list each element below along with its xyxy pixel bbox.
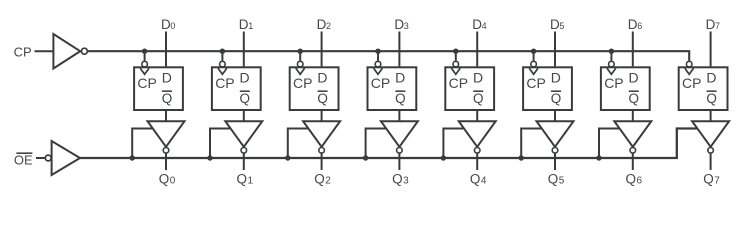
svg-text:CP: CP — [137, 75, 156, 91]
wire Q5 output — [554, 153, 556, 170]
tri-state buffer T5 — [537, 121, 574, 153]
wire clock rail (node CLK) — [88, 51, 689, 60]
node enable junction 4 — [441, 155, 446, 160]
label Q6 — [626, 171, 643, 186]
wire CP input to inverter U1 — [35, 50, 54, 52]
wire D3 input to FF3 — [398, 32, 400, 67]
flip-flop FF5 — [523, 67, 572, 110]
svg-text:CP: CP — [449, 75, 468, 91]
inverter U1 (CP buffer, bubble on output) — [53, 34, 87, 69]
svg-text:6: 6 — [637, 21, 642, 31]
svg-text:Q: Q — [703, 171, 714, 186]
wire clock drop to FF5 — [533, 51, 535, 60]
flip-flop FF2 — [290, 67, 339, 110]
label D6 — [628, 17, 642, 32]
inverter U2 (OE buffer, bubble on input) — [45, 141, 80, 175]
tri-state buffer T3 — [381, 121, 418, 153]
svg-text:Q: Q — [159, 171, 170, 186]
wire Q2 output — [321, 153, 323, 170]
label D3 — [394, 17, 408, 32]
label D7 — [706, 17, 720, 32]
label Q0 — [159, 171, 176, 186]
node enable junction 0 — [130, 155, 135, 160]
svg-text:4: 4 — [482, 21, 487, 31]
svg-text:0: 0 — [170, 175, 176, 186]
node enable junction 2 — [285, 155, 290, 160]
wire OE input to inverter U2 — [36, 157, 45, 159]
tri-state buffer T7 — [692, 121, 729, 153]
label CP input — [14, 45, 32, 60]
flip-flop FF1 — [212, 67, 261, 110]
node clock junction 2 — [298, 49, 303, 54]
wire Q7 output — [710, 153, 712, 170]
svg-text:0: 0 — [170, 21, 175, 31]
svg-text:Q: Q — [551, 91, 562, 106]
svg-text:D: D — [551, 70, 561, 86]
svg-text:Q: Q — [317, 91, 328, 106]
wire OE rail (node EN) — [80, 129, 698, 159]
node enable junction 3 — [363, 155, 368, 160]
tri-state buffer T6 — [614, 121, 651, 153]
label Q3 — [392, 171, 409, 186]
wire enable to buffer T3 — [366, 129, 387, 159]
wire clock drop to FF3 — [377, 51, 379, 60]
node clock junction 5 — [531, 49, 536, 54]
flip-flop FF0 — [134, 67, 183, 110]
svg-text:Q: Q — [240, 91, 251, 106]
wire enable to buffer T5 — [521, 129, 542, 159]
svg-text:CP: CP — [293, 75, 312, 91]
svg-text:3: 3 — [403, 175, 409, 186]
svg-text:2: 2 — [326, 21, 331, 31]
svg-text:D: D — [317, 70, 327, 86]
wire Q3 output — [398, 153, 400, 170]
svg-text:7: 7 — [715, 21, 720, 31]
svg-text:Q: Q — [470, 171, 481, 186]
svg-text:Q: Q — [629, 91, 640, 106]
flip-flop FF7 clock bubble — [686, 61, 692, 67]
label Q1 — [237, 171, 254, 186]
label OE-bar input — [14, 152, 33, 167]
svg-text:D: D — [473, 70, 483, 86]
wire FF0 Q-bar to buffer 0 — [165, 111, 167, 121]
node enable junction 6 — [596, 155, 601, 160]
svg-text:4: 4 — [481, 175, 487, 186]
svg-text:CP: CP — [371, 75, 390, 91]
svg-text:D: D — [240, 70, 250, 86]
wire enable to buffer T0 — [132, 129, 153, 159]
label D5 — [550, 17, 564, 32]
flip-flop FF7 — [679, 67, 728, 110]
svg-text:D: D — [706, 70, 716, 86]
wire D1 input to FF1 — [243, 32, 245, 67]
svg-text:Q: Q — [706, 91, 717, 106]
svg-text:Q: Q — [237, 171, 248, 186]
tri-state buffer T1 — [225, 121, 262, 153]
wire FF7 Q-bar to buffer 7 — [710, 111, 712, 121]
label D4 — [472, 17, 486, 32]
svg-text:OE: OE — [14, 152, 33, 167]
label Q7 — [703, 171, 720, 186]
node clock junction 0 — [142, 49, 147, 54]
svg-text:Q: Q — [162, 91, 173, 106]
svg-text:D: D — [629, 70, 639, 86]
flip-flop FF1 clock bubble — [220, 61, 226, 67]
label D2 — [317, 17, 331, 32]
wire FF6 Q-bar to buffer 6 — [632, 111, 634, 121]
wire enable to buffer T6 — [599, 129, 620, 159]
wire clock drop to FF6 — [610, 51, 612, 60]
wire FF4 Q-bar to buffer 4 — [476, 111, 478, 121]
flip-flop FF3 clock bubble — [375, 61, 381, 67]
wire FF3 Q-bar to buffer 3 — [398, 111, 400, 121]
label Q2 — [314, 171, 331, 186]
svg-text:3: 3 — [404, 21, 409, 31]
svg-text:Q: Q — [314, 171, 325, 186]
svg-text:Q: Q — [395, 91, 406, 106]
flip-flop FF2 clock bubble — [297, 61, 303, 67]
svg-text:CP: CP — [604, 75, 623, 91]
svg-text:Q: Q — [392, 171, 403, 186]
flip-flop FF5 clock bubble — [531, 61, 537, 67]
wire clock drop to FF2 — [299, 51, 301, 60]
node clock junction 6 — [609, 49, 614, 54]
wire clock drop to FF0 — [144, 51, 146, 60]
svg-text:Q: Q — [473, 91, 484, 106]
wire Q4 output — [476, 153, 478, 170]
svg-text:7: 7 — [714, 175, 720, 186]
wire enable to buffer T4 — [443, 129, 464, 159]
node enable junction 1 — [207, 155, 212, 160]
svg-text:CP: CP — [14, 45, 32, 60]
wire Q0 output — [165, 153, 167, 170]
flip-flop FF3 — [368, 67, 417, 110]
tri-state buffer T4 — [459, 121, 496, 153]
flip-flop FF4 — [445, 67, 494, 110]
wire D2 input to FF2 — [321, 32, 323, 67]
wire D7 input to FF7 — [710, 32, 712, 67]
svg-text:5: 5 — [559, 175, 565, 186]
wire D5 input to FF5 — [554, 32, 556, 67]
wire Q6 output — [632, 153, 634, 170]
wire enable to buffer T2 — [288, 129, 309, 159]
flip-flop FF6 clock bubble — [609, 61, 615, 67]
wire FF2 Q-bar to buffer 2 — [321, 111, 323, 121]
wire FF5 Q-bar to buffer 5 — [554, 111, 556, 121]
node clock junction 1 — [220, 49, 225, 54]
svg-text:D: D — [162, 70, 172, 86]
wire clock drop to FF4 — [455, 51, 457, 60]
wire D6 input to FF6 — [632, 32, 634, 67]
flip-flop FF0 clock bubble — [142, 61, 148, 67]
svg-text:CP: CP — [526, 75, 545, 91]
svg-text:6: 6 — [637, 175, 643, 186]
wire clock drop to FF1 — [221, 51, 223, 60]
label Q4 — [470, 171, 487, 186]
flip-flop FF6 — [601, 67, 650, 110]
label Q5 — [548, 171, 565, 186]
wire enable to buffer T1 — [210, 129, 231, 159]
svg-text:1: 1 — [248, 175, 254, 186]
svg-text:Q: Q — [548, 171, 559, 186]
svg-text:1: 1 — [248, 21, 253, 31]
svg-text:Q: Q — [626, 171, 637, 186]
flip-flop FF4 clock bubble — [453, 61, 459, 67]
wire Q1 output — [243, 153, 245, 170]
wire D0 input to FF0 — [165, 32, 167, 67]
tri-state buffer T0 — [148, 121, 185, 153]
wire D4 input to FF4 — [476, 32, 478, 67]
wire FF1 Q-bar to buffer 1 — [243, 111, 245, 121]
svg-text:CP: CP — [682, 75, 701, 91]
node enable junction 5 — [519, 155, 524, 160]
label D1 — [239, 17, 253, 32]
node clock junction 3 — [375, 49, 380, 54]
node clock junction 4 — [453, 49, 458, 54]
svg-text:5: 5 — [559, 21, 564, 31]
tri-state buffer T2 — [303, 121, 340, 153]
svg-text:2: 2 — [325, 175, 331, 186]
svg-text:CP: CP — [215, 75, 234, 91]
svg-text:D: D — [395, 70, 405, 86]
label D0 — [161, 17, 175, 32]
